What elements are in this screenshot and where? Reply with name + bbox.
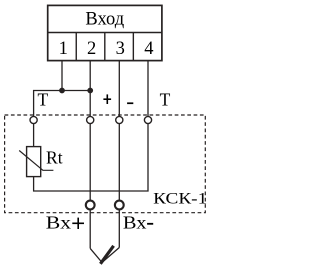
svg-text:Rt: Rt — [46, 148, 63, 168]
junction dot on wire 2 — [87, 88, 93, 94]
svg-text:Вх: Вх — [123, 213, 147, 233]
svg-text:Вх: Вх — [46, 213, 71, 233]
wire terminal4 down, left to Rt bottom — [34, 61, 148, 191]
resistor Rt body — [27, 147, 41, 177]
terminal circle + on dashed edge — [87, 116, 94, 123]
svg-text:Т: Т — [160, 90, 171, 110]
junction dot on wire 1 — [59, 88, 65, 94]
wire terminal2 down to Вх+ — [89, 61, 91, 249]
svg-text:КСК-1: КСК-1 — [153, 190, 207, 207]
resistor Rt thermistor diagonal — [19, 151, 53, 171]
cell divider 3|4 — [132, 33, 134, 61]
svg-text:4: 4 — [144, 39, 153, 59]
wire terminal1 down to jumper — [61, 61, 63, 91]
label - (drawn) — [127, 102, 133, 104]
label + (drawn) — [103, 94, 111, 104]
terminal circle T left on dashed edge — [30, 116, 37, 123]
svg-text:2: 2 — [87, 39, 96, 59]
thermocouple hot junction thick stroke — [100, 246, 113, 264]
wire terminal3 down to Вх- — [118, 61, 120, 248]
thermocouple V wires — [90, 248, 119, 263]
terminal circle - on dashed edge — [116, 116, 123, 123]
wire jumper horizontal with riser to circle T — [34, 91, 91, 117]
terminal block divider row — [48, 32, 162, 34]
label Вх+ plus sign (drawn) — [72, 218, 84, 229]
svg-text:3: 3 — [116, 39, 125, 59]
terminal circle Вх+ — [86, 201, 95, 210]
terminal block Вход outer box — [48, 5, 162, 60]
terminal circle Вх- — [115, 201, 124, 210]
wire circle T to Rt top — [33, 120, 35, 147]
svg-text:Т: Т — [38, 90, 49, 110]
svg-text:Вход: Вход — [85, 10, 124, 30]
dashed enclosure KCK-1 — [5, 115, 206, 213]
cell divider 2|3 — [104, 33, 106, 61]
terminal circle T right on dashed edge — [144, 116, 151, 123]
cell divider 1|2 — [75, 33, 77, 61]
svg-text:1: 1 — [59, 39, 68, 59]
label Вх- minus sign (drawn) — [147, 223, 153, 225]
